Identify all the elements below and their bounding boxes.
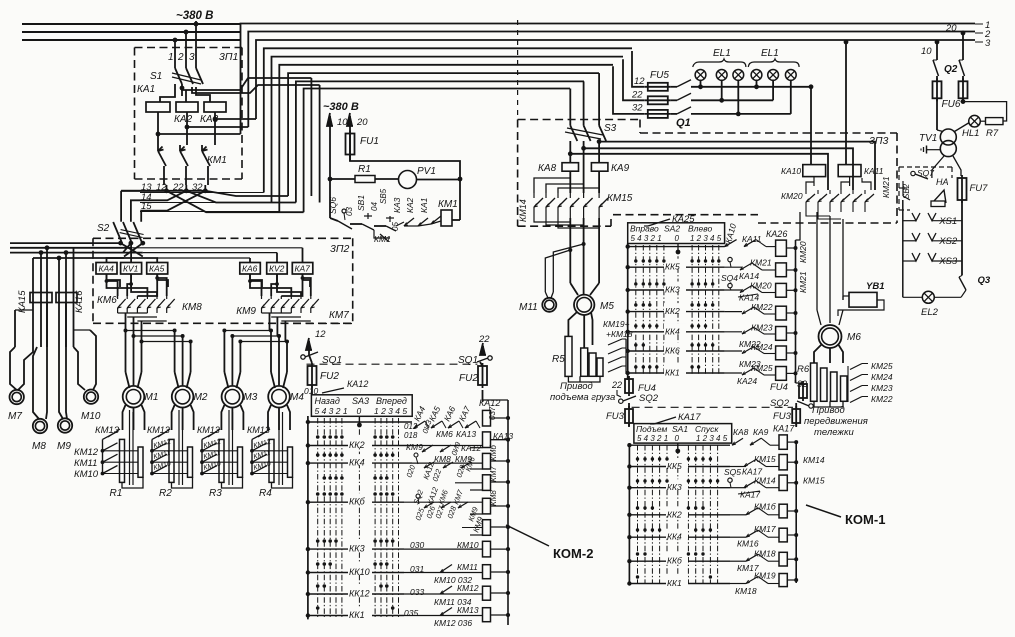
svg-text:Спуск: Спуск <box>695 424 719 434</box>
svg-text:КА10: КА10 <box>781 166 801 176</box>
svg-text:FU2: FU2 <box>459 373 478 384</box>
motor M6 <box>819 325 842 348</box>
wire phases to M5 <box>569 218 571 283</box>
motor М2 <box>172 386 194 408</box>
svg-text:20: 20 <box>356 117 368 128</box>
enclosure section mark dashed <box>517 20 519 120</box>
svg-text:EL1: EL1 <box>761 48 779 59</box>
wire S2 outputs crossing <box>118 241 123 246</box>
wire S1 outputs turn-down <box>310 78 312 196</box>
wire chain feed <box>329 179 331 218</box>
relay coil KA4 <box>96 263 117 275</box>
table SA1 left bus <box>628 443 630 585</box>
svg-text:КМ20: КМ20 <box>781 191 803 201</box>
svg-text:КМ11: КМ11 <box>457 562 478 572</box>
enclosure 3П3 dashed box left part <box>518 119 640 121</box>
svg-text:КМ24: КМ24 <box>871 372 893 382</box>
svg-text:КМ15: КМ15 <box>754 454 776 464</box>
row KK4 contacts <box>414 453 418 457</box>
svg-text:0: 0 <box>675 434 680 443</box>
svg-text:КА1: КА1 <box>137 84 155 95</box>
motor М2 rotor wires <box>172 405 175 430</box>
svg-text:FU2: FU2 <box>320 371 339 382</box>
table SA1 row labels <box>666 458 688 468</box>
svg-text:HL1: HL1 <box>962 128 979 139</box>
svg-text:М9: М9 <box>57 441 71 452</box>
svg-text:КК4: КК4 <box>349 458 365 468</box>
svg-text:КА4: КА4 <box>99 264 115 274</box>
svg-text:КМб: КМб <box>489 445 498 461</box>
wire KM20/21 outputs down <box>796 212 801 240</box>
table SA2 header box <box>628 223 725 244</box>
coil KM9 (SA3) <box>483 520 491 536</box>
svg-text:0: 0 <box>357 406 362 416</box>
svg-text:FU5: FU5 <box>650 70 669 81</box>
motor М3 <box>222 386 244 408</box>
svg-text:КМ1: КМ1 <box>438 199 458 210</box>
svg-text:КМ25: КМ25 <box>871 361 893 371</box>
svg-text:05: 05 <box>391 222 400 231</box>
voltmeter PV1 <box>399 171 417 189</box>
svg-text:КМ7: КМ7 <box>489 466 498 482</box>
svg-text:Назад: Назад <box>315 396 340 406</box>
wire SA3 rows to coils <box>404 548 483 550</box>
relay coil KA5 <box>147 263 168 275</box>
wire staircase bundle (9 lines over to right side) <box>241 24 976 135</box>
svg-text:R4: R4 <box>259 488 272 499</box>
resistor bank R3 ladder <box>201 439 203 474</box>
svg-text:12: 12 <box>315 329 326 340</box>
svg-text:20: 20 <box>945 23 957 34</box>
coil KM14 (SA1) <box>779 455 787 470</box>
svg-text:КК5: КК5 <box>665 262 680 272</box>
table SA3 row labels <box>348 437 372 448</box>
motor М4 <box>268 386 290 408</box>
contact KM1 aux <box>374 230 390 238</box>
svg-text:КМ12 036: КМ12 036 <box>434 618 472 628</box>
svg-text:FU3: FU3 <box>606 411 625 422</box>
resistor bank R1 ladder <box>102 439 104 474</box>
svg-text:0: 0 <box>675 234 680 243</box>
row KK6 contacts <box>416 494 420 498</box>
svg-text:КК1: КК1 <box>349 610 365 620</box>
contacts KM9-KM7 (six) <box>262 299 270 308</box>
relay coil KA6 <box>240 263 260 275</box>
coil KM21 <box>776 263 787 277</box>
motor М3 rotor wires <box>221 405 224 430</box>
motor M8 wires <box>33 347 39 419</box>
svg-text:КК12: КК12 <box>349 589 370 599</box>
svg-text:FU6: FU6 <box>942 99 961 110</box>
svg-text:Q2: Q2 <box>944 64 958 75</box>
resistor bank R2 elements <box>169 439 174 482</box>
svg-text:SQ7: SQ7 <box>917 168 934 178</box>
svg-text:FU7: FU7 <box>970 183 989 194</box>
svg-text:КА5: КА5 <box>149 264 165 274</box>
svg-text:1 2 3 4 5: 1 2 3 4 5 <box>374 406 407 416</box>
svg-text:КА17: КА17 <box>773 424 795 434</box>
wire FU1 to PV1 loop <box>350 155 460 220</box>
svg-text:КМ18: КМ18 <box>735 586 757 596</box>
svg-text:КМ13: КМ13 <box>457 605 479 615</box>
wire XS bus <box>902 200 904 297</box>
svg-text:КМ13: КМ13 <box>95 425 120 436</box>
resistor bank R4 ladder <box>251 439 253 474</box>
coil KM6 (SA3) <box>483 453 491 469</box>
wire KA1 down <box>157 112 159 145</box>
wire row1 extension to 3P3 <box>754 84 759 89</box>
svg-text:КМ14: КМ14 <box>803 455 825 465</box>
svg-text:R7: R7 <box>986 128 999 139</box>
node KOM-1 callout <box>806 505 841 517</box>
svg-text:КА24: КА24 <box>737 376 757 386</box>
svg-text:КМ21: КМ21 <box>881 176 891 198</box>
svg-text:КА8: КА8 <box>538 163 557 174</box>
svg-text:КМ22: КМ22 <box>871 394 893 404</box>
wire to KA coils <box>160 84 175 102</box>
fuse FU6 pair <box>933 81 942 98</box>
fuse FU2 (right) <box>480 362 483 366</box>
motor M10 <box>84 390 98 404</box>
svg-text:НА: НА <box>936 177 949 187</box>
wire 14 to S2 <box>131 191 186 222</box>
svg-text:КМ1: КМ1 <box>374 234 391 244</box>
wire bus into 3П2 <box>10 242 121 244</box>
wire phase drop 2 <box>185 32 187 68</box>
svg-text:М7: М7 <box>8 411 22 422</box>
svg-text:FU4: FU4 <box>770 382 788 393</box>
svg-text:КА9: КА9 <box>611 163 630 174</box>
svg-text:018: 018 <box>404 431 418 440</box>
table SA3 contact dots <box>316 435 320 439</box>
wire KM9/KM7 nest <box>250 274 262 296</box>
wire bus L1 left <box>22 23 240 25</box>
coil KM10 (SA3) <box>483 541 491 557</box>
wire 13-14-15 horizontals to verticals <box>152 192 264 194</box>
wire lamp row 3 <box>691 113 791 115</box>
motor М1 funnel <box>126 372 130 388</box>
svg-text:~380 В: ~380 В <box>323 101 359 113</box>
svg-text:КК1: КК1 <box>667 578 682 588</box>
wire arrow 10 <box>329 116 331 179</box>
wire lamp row 2 <box>691 99 773 101</box>
svg-text:КМ21: КМ21 <box>750 258 772 268</box>
svg-text:КА26: КА26 <box>766 229 787 239</box>
fuse FU2 (left) <box>309 355 312 363</box>
lamp HL1 and resistor R7 <box>963 102 1007 121</box>
svg-text:передвижения: передвижения <box>804 416 868 427</box>
svg-text:1: 1 <box>168 52 174 63</box>
svg-text:М1: М1 <box>145 392 159 403</box>
svg-text:ККб: ККб <box>349 497 366 507</box>
svg-text:КМ8: КМ8 <box>182 302 202 313</box>
svg-text:Влево: Влево <box>688 224 712 234</box>
relay coil KV1 <box>121 263 142 275</box>
svg-text:КМ15: КМ15 <box>803 476 825 486</box>
svg-text:КК5: КК5 <box>667 461 682 471</box>
svg-text:КМ17: КМ17 <box>754 524 776 534</box>
resistor bank R3 elements <box>219 439 224 482</box>
svg-text:012: 012 <box>404 422 418 431</box>
svg-text:КМ9: КМ9 <box>406 442 423 452</box>
svg-text:SB5: SB5 <box>379 188 388 204</box>
svg-text:5 4 3 2 1: 5 4 3 2 1 <box>315 406 348 416</box>
svg-text:КК2: КК2 <box>349 440 365 450</box>
svg-text:SA2: SA2 <box>664 224 680 234</box>
svg-text:КА2: КА2 <box>405 197 415 213</box>
svg-text:КА17: КА17 <box>678 412 701 423</box>
svg-text:КА8: КА8 <box>733 427 749 437</box>
table SA2 row wires <box>628 246 725 248</box>
svg-text:2: 2 <box>177 52 184 63</box>
wire node 13-12-22-32 crossing <box>121 190 205 192</box>
svg-text:R2: R2 <box>159 488 172 499</box>
motor М4 rotor wires <box>268 405 271 430</box>
svg-text:КМ13: КМ13 <box>247 425 270 435</box>
table SA1 row wires <box>629 444 730 446</box>
wire S1 outputs <box>181 88 183 96</box>
svg-text:М10: М10 <box>81 411 101 422</box>
svg-text:КМ1б: КМ1б <box>754 502 777 512</box>
svg-text:3: 3 <box>985 38 991 49</box>
fuse FU4 (left) <box>627 377 629 380</box>
svg-text:КМ6: КМ6 <box>436 429 453 439</box>
svg-text:КМ10: КМ10 <box>74 469 99 480</box>
svg-text:5 4 3 2 1: 5 4 3 2 1 <box>631 234 662 243</box>
svg-text:04: 04 <box>370 202 379 211</box>
wire phase drop 1 <box>174 40 176 68</box>
svg-text:033: 033 <box>410 587 424 597</box>
svg-text:КК2: КК2 <box>667 509 682 519</box>
coil KM13 (SA3) <box>483 608 491 622</box>
node KOM-2 callout <box>506 525 549 546</box>
svg-text:12: 12 <box>634 76 645 87</box>
svg-text:S2: S2 <box>97 223 110 234</box>
svg-text:FU1: FU1 <box>360 136 379 147</box>
table SA2 right bus <box>795 240 797 380</box>
limit switch SQ4 <box>728 257 732 261</box>
table SA2 columns <box>635 245 637 374</box>
wire bus L2 left <box>22 31 240 33</box>
svg-text:КК10: КК10 <box>349 567 370 577</box>
svg-text:КК4: КК4 <box>667 532 682 542</box>
svg-text:SA3: SA3 <box>352 396 369 406</box>
svg-text:М3: М3 <box>243 392 257 403</box>
table SA3 header box <box>311 395 412 417</box>
svg-text:FU3: FU3 <box>773 411 792 422</box>
wire KA6-KV2-KA7 feeds <box>249 258 251 263</box>
svg-text:Вперед: Вперед <box>376 396 407 406</box>
svg-text:~380 В: ~380 В <box>176 10 213 22</box>
motor М1 rotor wires <box>123 405 126 430</box>
svg-text:КК1: КК1 <box>665 368 680 378</box>
svg-text:тележки: тележки <box>814 427 854 438</box>
svg-text:ККб: ККб <box>667 556 683 566</box>
table SA3 row wires <box>308 421 412 423</box>
svg-text:YB1: YB1 <box>866 281 884 292</box>
wire branch to M11 <box>545 250 570 292</box>
svg-text:подъема груза: подъема груза <box>550 392 615 403</box>
contacts KM6-KM8 (six) <box>118 299 126 308</box>
svg-text:XS2: XS2 <box>938 236 958 247</box>
coil KM7 (SA3) <box>483 475 491 491</box>
svg-text:SQ2: SQ2 <box>770 398 790 409</box>
svg-text:Q1: Q1 <box>676 117 691 129</box>
svg-text:КА3: КА3 <box>392 197 402 213</box>
motor М4 funnel <box>271 372 275 388</box>
table SA3 right bus <box>507 400 509 625</box>
motor М2 funnel <box>175 372 179 388</box>
motor М1 <box>123 386 145 408</box>
enclosure 3П2 dashed box <box>93 237 353 239</box>
wire 13 to S2 <box>121 190 166 192</box>
button SB1 <box>350 223 362 225</box>
enclosure SQ7 dashed box <box>899 166 952 168</box>
svg-text:КМ14: КМ14 <box>754 476 776 486</box>
svg-text:КМ9: КМ9 <box>236 306 256 317</box>
enclosure 3П3 dashed box right part <box>639 120 641 134</box>
svg-text:22: 22 <box>478 334 490 345</box>
limit switch SQ2 (left) <box>619 399 623 403</box>
wire drop 22 <box>623 59 645 100</box>
wire crossing exit to v9 <box>167 191 304 212</box>
wire KM6/KM8 outputs <box>118 312 148 314</box>
svg-text:КА2: КА2 <box>174 114 193 125</box>
svg-text:КОМ-1: КОМ-1 <box>845 512 885 527</box>
svg-text:КК4: КК4 <box>665 326 680 336</box>
svg-text:КК3: КК3 <box>665 285 680 295</box>
motor M7 <box>10 390 24 404</box>
wire crossing exit to v8 <box>186 191 296 203</box>
svg-text:КМ18: КМ18 <box>754 549 776 559</box>
svg-text:КV2: КV2 <box>269 264 285 274</box>
relay coil KA2 <box>176 102 198 112</box>
svg-text:КМ14: КМ14 <box>518 199 528 222</box>
svg-text:1 2 3 4 5: 1 2 3 4 5 <box>690 234 722 243</box>
svg-text:КА7: КА7 <box>295 264 311 274</box>
svg-text:КМ15: КМ15 <box>607 193 633 204</box>
svg-text:Вправо: Вправо <box>630 224 659 234</box>
motor M6 rotor wires <box>814 344 822 363</box>
svg-text:R1: R1 <box>110 488 123 499</box>
wire TV1 secondary <box>932 156 944 178</box>
svg-text:КМ19+: КМ19+ <box>603 319 630 329</box>
table SA2 row labels <box>664 259 686 269</box>
svg-text:XS1: XS1 <box>938 216 957 227</box>
ground symbol <box>927 149 942 151</box>
svg-text:SA1: SA1 <box>672 424 688 434</box>
svg-text:КА11: КА11 <box>864 166 884 176</box>
coil KA13 (SA3) <box>483 432 491 448</box>
svg-text:03: 03 <box>345 207 354 216</box>
resistor bank R4 elements <box>269 439 274 482</box>
svg-text:КК3: КК3 <box>349 544 365 554</box>
wire crossing exit to v7 <box>205 191 288 196</box>
svg-text:М11: М11 <box>519 302 538 313</box>
enclosure KOM-2 dashed top <box>293 323 352 325</box>
wire phase drop 3 <box>195 24 197 68</box>
wire drop to KA11 <box>845 42 847 165</box>
table SA1 header box <box>634 424 732 444</box>
svg-text:SQ4: SQ4 <box>721 273 738 283</box>
motor М3 funnel <box>224 372 228 388</box>
svg-text:22: 22 <box>611 380 622 390</box>
svg-text:КМ8: КМ8 <box>489 490 498 506</box>
wire drop 32 <box>613 66 645 114</box>
svg-text:EL2: EL2 <box>921 307 939 318</box>
svg-text:3П1: 3П1 <box>219 51 238 63</box>
wire cross links <box>158 133 241 135</box>
svg-text:SQ6: SQ6 <box>328 197 338 214</box>
svg-text:PV1: PV1 <box>417 166 436 177</box>
wire 3П2 outputs to motor funnels <box>125 331 127 373</box>
svg-text:КМ6: КМ6 <box>97 295 117 306</box>
wire 380V tap <box>195 21 197 24</box>
wire KM9/KM7 outputs <box>262 312 292 314</box>
svg-text:КА13: КА13 <box>456 429 476 439</box>
svg-text:КМ23: КМ23 <box>871 383 893 393</box>
svg-text:КМ16: КМ16 <box>737 539 759 549</box>
resistor bank R1 elements <box>120 439 125 482</box>
svg-text:SQ2: SQ2 <box>639 393 659 404</box>
wire S3 out horizontals <box>598 141 600 162</box>
coil KA12 (SA3) <box>483 410 491 426</box>
svg-text:КОМ-2: КОМ-2 <box>553 546 593 561</box>
relay coil KA7 <box>292 263 313 275</box>
wire lamp risers <box>700 80 702 87</box>
wire KA4-KV1-KA5 to contacts <box>107 274 121 287</box>
svg-text:КМ20: КМ20 <box>750 280 772 290</box>
motor M6 funnel <box>817 310 821 325</box>
svg-text:М4: М4 <box>290 392 304 403</box>
coil KM11 (SA3) <box>483 565 491 579</box>
wire KM6/KM8 nest <box>107 274 118 296</box>
svg-text:SB1: SB1 <box>356 195 366 211</box>
svg-text:R6: R6 <box>797 364 810 375</box>
svg-text:КА12: КА12 <box>347 379 368 389</box>
wire arrow 20 <box>349 116 351 161</box>
relay coil KA3 <box>204 102 226 112</box>
svg-text:S3: S3 <box>604 123 617 134</box>
svg-text:КМ13: КМ13 <box>147 425 170 435</box>
svg-text:22: 22 <box>631 90 643 101</box>
svg-text:КМ7: КМ7 <box>329 310 349 321</box>
table SA1 columns <box>637 445 639 583</box>
svg-text:КМ12: КМ12 <box>457 583 479 593</box>
svg-text:КМ11: КМ11 <box>74 458 97 469</box>
svg-text:EL1: EL1 <box>713 48 731 59</box>
wire KA2 down <box>186 112 188 145</box>
svg-text:М8: М8 <box>32 441 46 452</box>
wire KA6-KV2-KA7 to contacts <box>250 274 262 287</box>
table SA2 contact dots <box>634 259 637 262</box>
motor M9 wires <box>59 347 63 419</box>
fuse FU1 <box>346 134 355 155</box>
wire bus L3 left <box>22 39 240 41</box>
svg-text:КV1: КV1 <box>123 264 139 274</box>
svg-text:SQ5: SQ5 <box>724 467 741 477</box>
svg-text:КА1: КА1 <box>419 197 429 213</box>
lamps EL1 (6 bulbs) <box>695 70 706 81</box>
svg-text:КМ19: КМ19 <box>754 571 776 581</box>
svg-text:R1: R1 <box>358 164 371 175</box>
table SA3 left bus <box>307 416 309 619</box>
svg-text:5 4 3 2 1: 5 4 3 2 1 <box>637 434 668 443</box>
svg-text:R3: R3 <box>209 488 222 499</box>
wire S2 to coil tops <box>107 258 158 263</box>
svg-text:10: 10 <box>921 46 932 57</box>
wire 15 to S2 <box>141 191 205 222</box>
